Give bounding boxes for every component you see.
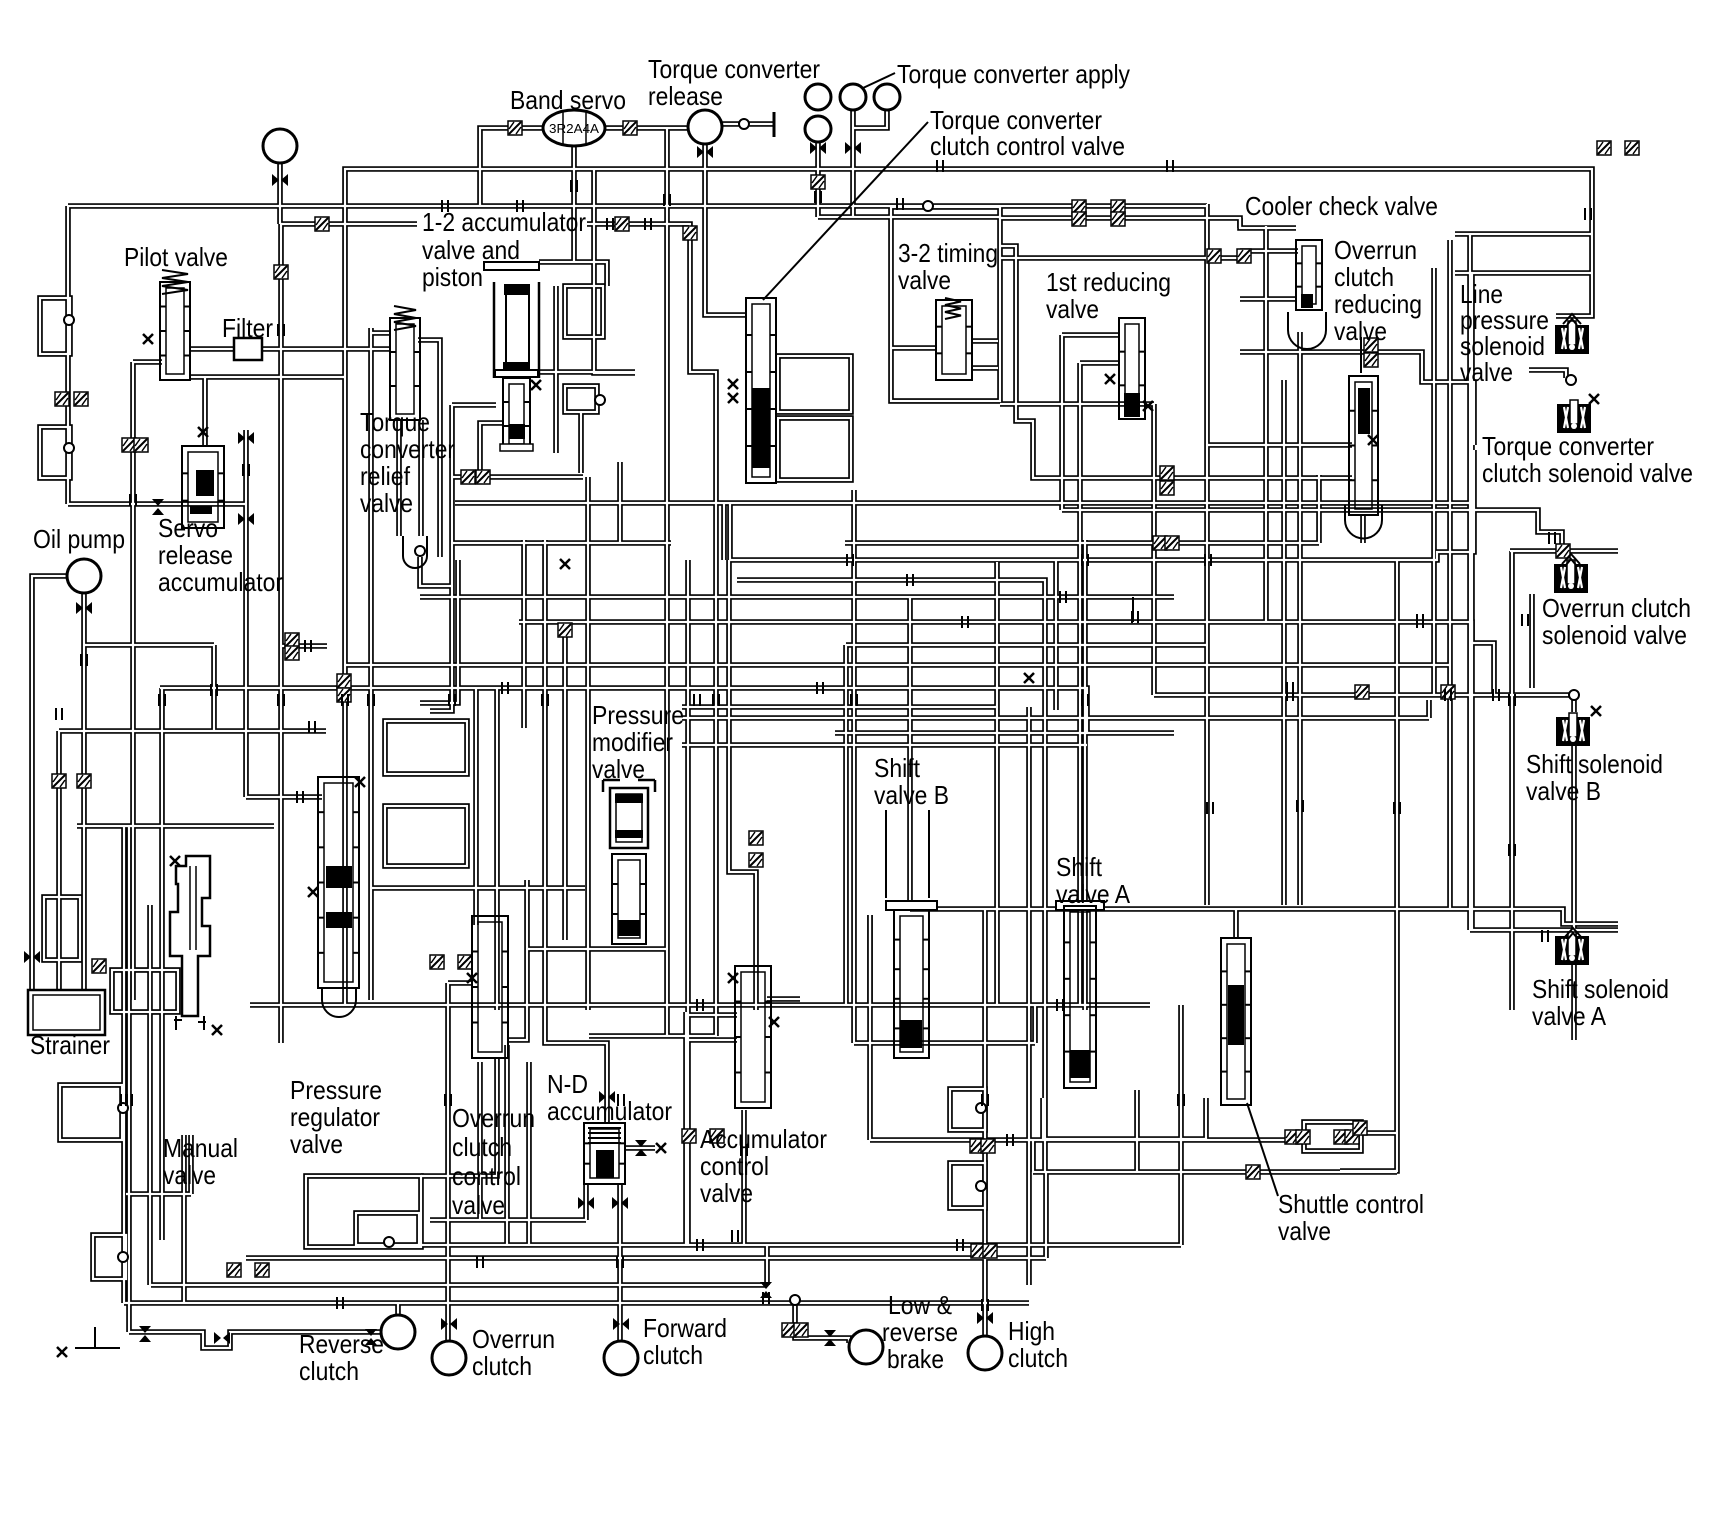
ball check at (69,448): [64, 443, 74, 453]
drain X at (774,1022): [769, 1017, 779, 1027]
wire segment w73: from (1035,1005) to (1035,1043): [1032, 1005, 1038, 1043]
drain X at (203,432): [198, 427, 208, 437]
wire segment w133: from (398,1315) to (398,1303): [395, 1303, 401, 1315]
wire segment w93: from (1000,218) to (1296,228): [1000, 218, 1296, 228]
wire segment w157: from (455,503) to (1474,503): [455, 500, 1474, 506]
wire segment w10: from (503,423) to (480,477): [480, 423, 503, 477]
wire segment w171: from (910,597) to (910,901): [907, 597, 913, 901]
svg-text:Pressure: Pressure: [592, 700, 684, 730]
wire segment w24: from (729,560) to (1474,450): [729, 450, 1474, 560]
wire segment w83: from (1207,204) to (1207,905): [1204, 204, 1210, 905]
wire segment w43: from (59,731) to (59,990): [56, 731, 62, 990]
wire loop l11: [356, 1213, 419, 1245]
orifice at (468,477): [461, 470, 475, 484]
orifice at (59,781): [52, 774, 66, 788]
Torque converter release port: [688, 110, 722, 144]
svg-text:clutch: clutch: [472, 1351, 532, 1381]
shift valve A: [1056, 901, 1104, 910]
wire segment w86: from (1266,226) to (1266,622): [1263, 226, 1269, 622]
orifice at (1079,207): [1072, 200, 1086, 214]
wire segment w27: from (519,622) to (1494,695): [519, 622, 1494, 695]
Oil pump: [67, 559, 101, 593]
svg-text:valve: valve: [592, 754, 645, 784]
wire loop l3: [93, 1235, 126, 1279]
orifice at (234,1270): [227, 1263, 241, 1277]
check valve at (32,957): [24, 951, 40, 963]
wire segment w129: from (124,1303) to (1029,1303): [124, 1300, 1029, 1306]
svg-text:valve: valve: [1460, 357, 1513, 387]
svg-text:Cooler check valve: Cooler check valve: [1245, 191, 1438, 221]
wire segment w18: from (574,146) to (574,262): [571, 146, 577, 262]
orifice at (630,128): [623, 121, 637, 135]
svg-text:piston: piston: [422, 262, 483, 292]
drain X at (565,564): [560, 559, 570, 569]
wire segment w50: from (162,688) to (162,1240): [159, 688, 165, 1240]
ball check at (744,124): [739, 119, 749, 129]
orifice at (322,224): [315, 217, 329, 231]
check valve at (371,1337): [365, 1329, 377, 1345]
Torque converter apply port 1: [805, 84, 831, 110]
orifice at (84,781): [77, 774, 91, 788]
wire segment w110: from (1512,551) to (1512,1010): [1509, 551, 1515, 1010]
wire segment w17: from (667,128) to (667,1036): [664, 128, 670, 1036]
svg-text:Torque converter: Torque converter: [1482, 431, 1654, 461]
svg-text:N-D: N-D: [547, 1069, 588, 1099]
wire segment w174: from (1470,234) to (1470,560): [1467, 234, 1473, 560]
svg-text:modifier: modifier: [592, 727, 673, 757]
junction tick at (1085,560): [1082, 554, 1088, 566]
check valve at (246,519): [238, 513, 254, 525]
svg-text:Filter: Filter: [222, 313, 273, 343]
orifice at (515,128): [508, 121, 522, 135]
orifice at (344,681): [337, 674, 351, 688]
check valve at (620,1203): [612, 1197, 628, 1209]
svg-text:release: release: [648, 81, 723, 111]
svg-text:clutch solenoid valve: clutch solenoid valve: [1482, 458, 1693, 488]
wire segment w154: from (625,1148) to (655,1148): [625, 1145, 655, 1151]
junction tick at (162,700): [159, 694, 165, 706]
drain X at (1148,406): [1143, 401, 1153, 411]
junction tick at (340,1303): [337, 1297, 343, 1309]
junction tick at (1552,538): [1549, 532, 1555, 544]
check valve at (641,1148): [635, 1140, 647, 1156]
wire segment w134: from (448,983) to (448,1341): [445, 983, 451, 1341]
svg-text:reverse: reverse: [882, 1317, 958, 1347]
wire segment w104: from (973,341) to (998,341): [973, 338, 998, 344]
junction tick at (621,1100): [618, 1094, 624, 1106]
svg-text:Shift solenoid: Shift solenoid: [1526, 749, 1663, 779]
wire loop l17: [778, 418, 851, 480]
orifice at (1448,692): [1441, 685, 1455, 699]
Shift solenoid valve A: [1555, 936, 1589, 965]
3-2 timing valve: [945, 298, 961, 319]
wire segment w132: from (795,1300) to (849,1343): [795, 1300, 849, 1343]
wire segment w68: from (545,540) to (607,1123): [545, 540, 607, 1123]
junction tick at (133,500): [130, 494, 136, 506]
wire loop l6: [950, 1089, 985, 1130]
filter: [234, 338, 262, 360]
wire loop l1: [40, 427, 70, 478]
wire segment w164: from (452,543) to (671,543): [452, 540, 671, 546]
orifice at (1167,488): [1160, 481, 1174, 495]
wire segment w95: from (1240,251) to (1298,251): [1240, 248, 1298, 254]
wire segment w91: from (1472,273) to (1472,930): [1469, 273, 1475, 930]
wire segment w101: from (1207,445) to (1352,445): [1207, 442, 1352, 448]
svg-text:valve A: valve A: [1056, 879, 1131, 909]
drain X at (1110,379): [1105, 374, 1115, 384]
svg-text:Overrun clutch: Overrun clutch: [1542, 593, 1691, 623]
wire segment w143: from (126,1194) to (191,1194): [126, 1191, 191, 1197]
wire segment w97: from (1455,234) to (1592,234): [1455, 231, 1592, 237]
wire segment w46: from (246,797) to (322,797): [246, 794, 322, 800]
junction tick at (820,688): [817, 682, 823, 694]
orifice at (1341,1137): [1334, 1130, 1348, 1144]
wire segment w40: from (84,645) to (214,645): [84, 642, 214, 648]
wire segment w119: from (430,1220) to (586,1220): [430, 1217, 586, 1223]
orifice at (1253,1172): [1246, 1165, 1260, 1179]
check valve at (621,1324): [613, 1318, 629, 1330]
orifice at (789,1330): [782, 1323, 796, 1337]
flow arrow at (1573,930): [1564, 928, 1582, 939]
orifice at (344,695): [337, 688, 351, 702]
orifice at (1079,219): [1072, 212, 1086, 226]
junction tick at (1545,936): [1542, 930, 1548, 942]
drain X at (360,782): [355, 777, 365, 787]
wire segment w108: from (1062,510) to (1562,551): [1062, 510, 1562, 551]
orifice at (978,1251): [971, 1244, 985, 1258]
wire segment w173: from (1236,909) to (1236,938): [1233, 909, 1239, 938]
junction tick at (960,1245): [957, 1239, 963, 1251]
svg-text:1st reducing: 1st reducing: [1046, 267, 1171, 297]
wire segment w66: from (497,688) to (497,1010): [494, 688, 500, 1010]
junction tick at (1181,1100): [1178, 1094, 1184, 1106]
wire segment w70: from (588,477) to (588,1010): [585, 477, 591, 1010]
wire segment w42: from (59,731) to (326,731): [59, 728, 326, 734]
orifice at (717,1136): [710, 1129, 724, 1143]
wire segment w137: from (620,1184) to (620,1341): [617, 1184, 623, 1341]
junction tick at (545,700): [542, 694, 548, 706]
svg-text:clutch: clutch: [643, 1340, 703, 1370]
junction tick at (129,1100): [126, 1094, 132, 1106]
wire segment w165: from (205,377) to (205,446): [202, 377, 208, 446]
wire segment w155: from (371,888) to (585,888): [371, 885, 585, 891]
junction tick at (1512,850): [1509, 844, 1515, 856]
wire segment w11: from (452,477) to (583,477): [452, 474, 583, 480]
svg-text:Overrun: Overrun: [1334, 235, 1417, 265]
drain X at (1594,399): [1589, 394, 1599, 404]
wire segment w65: from (476,688) to (476,925): [473, 688, 479, 925]
orifice at (129,445): [122, 438, 136, 452]
ball check at (795,1300): [790, 1295, 800, 1305]
ball check at (123,1257): [118, 1252, 128, 1262]
torque converter relief valve: [394, 306, 416, 330]
junction tick at (1085,700): [1082, 694, 1088, 706]
orifice at (565,630): [558, 623, 572, 637]
wire segment w63: from (190,377) to (345,377): [190, 374, 345, 380]
svg-text:release: release: [158, 540, 233, 570]
wire segment w144: from (870,915) to (870,1140): [867, 915, 873, 1140]
wire segment w148: from (1361,1133) to (1397,1133): [1361, 1130, 1397, 1136]
svg-text:regulator: regulator: [290, 1102, 380, 1132]
junction tick at (281,700): [278, 694, 284, 706]
svg-text:control: control: [452, 1161, 521, 1191]
pressure modifier valve: [603, 780, 655, 792]
junction tick at (1010,1140): [1007, 1134, 1013, 1146]
orifice at (1118,219): [1111, 212, 1125, 226]
junction tick at (1208,560): [1205, 554, 1211, 566]
svg-text:Overrun: Overrun: [472, 1324, 555, 1354]
svg-text:Torque converter apply: Torque converter apply: [897, 59, 1130, 89]
check valve at (818,148): [810, 142, 826, 154]
drain X at (536,385): [531, 380, 541, 390]
junction tick at (505,688): [502, 682, 508, 694]
svg-text:clutch: clutch: [452, 1132, 512, 1162]
check valve at (830,1338): [824, 1330, 836, 1346]
orifice at (141,445): [134, 438, 148, 452]
High clutch port: [968, 1336, 1002, 1370]
junction tick at (505,688): [502, 682, 508, 694]
junction tick at (985,1305): [982, 1299, 988, 1311]
svg-text:valve: valve: [898, 265, 951, 295]
orifice at (756,860): [749, 853, 763, 867]
junction tick at (214,690): [211, 684, 217, 696]
ball check at (1574,695): [1569, 690, 1579, 700]
wire segment w152: from (686,1040) to (737,1040): [686, 1037, 737, 1043]
wire segment w96: from (1240,299) to (1296,299): [1240, 296, 1296, 302]
orifice at (281,272): [274, 265, 288, 279]
svg-text:3-2 timing: 3-2 timing: [898, 238, 998, 268]
wire segment w35: from (846,645) to (1207,645): [846, 642, 1207, 648]
wire segment w114: from (1470,560) to (1470,930): [1467, 560, 1473, 930]
check valve at (222,1338): [214, 1332, 230, 1344]
wire segment w75: from (729,560) to (756,1010): [729, 560, 756, 1010]
wire segment w175: from (1080,909) to (1080,1005): [1077, 909, 1083, 1005]
wire segment w31: from (682,718) to (1429,718): [682, 715, 1429, 721]
wire segment w79: from (1062,335) to (1062,510): [1059, 335, 1065, 510]
junction tick at (1170,166): [1167, 160, 1173, 172]
wire segment w44: from (214,645) to (214,731): [211, 645, 217, 731]
wire segment w126: from (151,1285) to (767,1285): [151, 1282, 767, 1288]
wire segment w88: from (1397,560) to (1340,1171): [1340, 560, 1397, 1171]
drain X at (1029,678): [1024, 673, 1034, 683]
svg-text:clutch: clutch: [299, 1356, 359, 1386]
wire segment w29: from (160,688) to (1087,733): [160, 688, 1087, 733]
orifice at (292,653): [285, 646, 299, 660]
orifice at (292,640): [285, 633, 299, 647]
wire segment w109: from (1510,551) to (1618,551): [1510, 548, 1618, 554]
wire segment w121: from (421,1245) to (1181,1245): [421, 1242, 1181, 1248]
junction tick at (445,206): [442, 200, 448, 212]
svg-text:valve and: valve and: [422, 235, 520, 265]
junction tick at (648,224): [645, 218, 651, 230]
wire segment w118: from (910,901) to (910,909): [907, 901, 913, 909]
junction tick at (246,470): [243, 464, 249, 476]
wire segment w41: from (67,576) to (32,990): [32, 576, 67, 990]
accumulator port: [263, 129, 297, 163]
svg-text:solenoid valve: solenoid valve: [1542, 620, 1687, 650]
wire segment w45: from (246,430) to (246,797): [243, 430, 249, 797]
wire segment w72: from (854,1043) to (1035,1043): [854, 1040, 1035, 1046]
junction tick at (965,622): [962, 616, 968, 628]
svg-text:High: High: [1008, 1316, 1055, 1346]
wire segment w128: from (124,826) to (124,1303): [121, 826, 127, 1303]
wire segment w90: from (1450,240) to (1450,909): [1447, 240, 1453, 909]
svg-text:Shift: Shift: [874, 753, 921, 783]
drain X at (1373,440): [1368, 435, 1378, 445]
junction tick at (520,206): [517, 200, 523, 212]
wire segment w48: from (77,826) to (274,826): [77, 823, 274, 829]
wire segment w3: from (68,206) to (68,504): [65, 206, 71, 504]
wire loop l8: [112, 970, 178, 1012]
wire segment w36: from (846,645) to (846,1005): [843, 645, 849, 1005]
wire segment w136: from (527,880) to (508,1040): [508, 880, 527, 1040]
check valve at (84,608): [76, 602, 92, 614]
wire segment w37: from (682,707) to (997,707): [682, 704, 997, 710]
wire segment w87: from (1363,515) to (1363,543): [1360, 515, 1366, 543]
svg-text:Pressure: Pressure: [290, 1075, 382, 1105]
svg-text:valve: valve: [452, 1190, 505, 1220]
wire segment w167: from (399,420) to (399,536): [396, 420, 402, 536]
orifice at (437,962): [430, 955, 444, 969]
wire loop l4: [385, 721, 467, 774]
wire segment w38: from (682,745) to (1087,745): [682, 742, 1087, 748]
junction tick at (1525,620): [1522, 614, 1528, 626]
check valve at (449,1324): [441, 1318, 457, 1330]
svg-text:clutch: clutch: [1008, 1343, 1068, 1373]
wire segment w15: from (544,128) to (480,206): [480, 128, 544, 206]
orifice at (1244,256): [1237, 249, 1251, 263]
wire segment w0: from (345,665) to (1556,316): [345, 169, 1592, 665]
Overrun clutch port: [432, 1341, 466, 1375]
wire segment w59: from (496,405) to (452,405): [452, 402, 496, 408]
Low & reverse brake port: [849, 1330, 883, 1364]
orifice at (1172,543): [1165, 536, 1179, 550]
wire loop l7: [950, 1163, 985, 1208]
check valve at (145,1334): [139, 1326, 151, 1342]
servo release accumulator: [182, 446, 224, 528]
check valve at (766,1290): [760, 1282, 772, 1298]
junction tick at (910,580): [907, 574, 913, 586]
svg-text:brake: brake: [887, 1344, 944, 1374]
wire segment w62: from (260,349) to (390,349): [260, 346, 390, 352]
drain X at (1596,711): [1591, 706, 1601, 716]
junction tick at (312,727): [309, 721, 315, 733]
wire segment w9: from (539,262) to (607,286): [539, 262, 607, 286]
wire segment w102: from (1000,246) to (1352,478): [1000, 246, 1352, 478]
wire segment w94: from (818,217) to (1000,217): [818, 214, 1000, 220]
svg-text:1-2 accumulator: 1-2 accumulator: [422, 207, 586, 237]
svg-text:Pilot valve: Pilot valve: [124, 242, 228, 272]
ball check at (928,206): [923, 201, 933, 211]
wire segment w51: from (150,905) to (150,1285): [147, 905, 153, 1285]
cooler check valve: [1296, 240, 1322, 310]
junction tick at (281,330): [278, 324, 284, 336]
junction tick at (480,1262): [477, 1256, 483, 1268]
wire segment w100: from (1319,475) to (1319,543): [1316, 475, 1322, 543]
svg-text:valve: valve: [700, 1178, 753, 1208]
junction tick at (900,204): [897, 198, 903, 210]
wire segment w142: from (191,1135) to (191,1194): [188, 1135, 194, 1194]
Torque converter apply port 2: [840, 84, 866, 110]
wire segment w115: from (1470,930) to (1618,930): [1470, 927, 1618, 933]
wire segment w153: from (767,999) to (800,999): [767, 996, 800, 1002]
svg-text:relief: relief: [360, 461, 411, 491]
wire segment w146: from (1043,1098) to (1206,1098): [1043, 1098, 1206, 1139]
svg-text:accumulator: accumulator: [158, 567, 283, 597]
wire segment w16: from (604,128) to (688,128): [604, 125, 688, 131]
svg-text:valve: valve: [290, 1129, 343, 1159]
wire segment w120: from (480,1062) to (480,1220): [477, 1062, 483, 1220]
drain X at (661,1148): [656, 1143, 666, 1153]
wire segment w80: from (1062,335) to (1119,335): [1062, 332, 1119, 338]
wire segment w53: from (345,665) to (345,1005): [342, 665, 348, 1005]
junction tick at (850,560): [847, 554, 853, 566]
wire loop l15: [44, 897, 80, 960]
wire segment w99: from (1240,352) to (1474,445): [1240, 352, 1474, 445]
1st reducing valve: [1119, 318, 1145, 419]
junction tick at (620,1262): [617, 1256, 623, 1268]
wire segment w56: from (418,340) to (440,557): [418, 340, 440, 557]
wire segment w52: from (68,504) to (225,504): [68, 501, 225, 507]
junction tick at (1420,620): [1417, 614, 1423, 626]
wire segment w22: from (853,111) to (853,217): [850, 111, 856, 217]
wire segment w124: from (246,1258) to (1046,1258): [246, 1255, 1046, 1261]
svg-text:accumulator: accumulator: [547, 1096, 672, 1126]
check valve at (280,180): [272, 174, 288, 186]
ball check at (1571,380): [1566, 375, 1576, 385]
junction tick at (940,166): [937, 160, 943, 172]
band servo (3R/2A/4A): [543, 110, 605, 146]
orifice at (690,233): [683, 226, 697, 240]
junction tick at (345,700): [342, 694, 348, 706]
drain X at (217,1030): [212, 1025, 222, 1035]
wire segment w7: from (620,462) to (620,543): [617, 462, 623, 543]
ball check at (123,1108): [118, 1103, 128, 1113]
ball check at (600,400): [595, 395, 605, 405]
svg-text:valve: valve: [1046, 294, 1099, 324]
svg-text:Overrun: Overrun: [452, 1103, 535, 1133]
Shift solenoid valve B: [1556, 717, 1590, 746]
pilot valve: [162, 270, 188, 294]
wire segment w138: from (586,1184) to (586,1220): [583, 1184, 589, 1220]
junction tick at (574,186): [571, 180, 577, 192]
wire segment w170: from (497,1058) to (421,1176): [421, 1058, 497, 1176]
wire segment w19: from (705,145) to (746,315): [705, 145, 746, 315]
wire segment w89: from (1434,268) to (1434,695): [1431, 268, 1437, 695]
wire segment w168: from (421,420) to (421,536): [418, 420, 424, 536]
orifice at (1352,1137): [1345, 1130, 1359, 1144]
orifice at (483,477): [476, 470, 490, 484]
wire segment w76: from (1029,707) to (1029,1285): [1026, 707, 1032, 1285]
orifice at (689,1136): [682, 1129, 696, 1143]
svg-text:Forward: Forward: [643, 1313, 727, 1343]
wire segment w78: from (1085,540) to (1085,1010): [1082, 540, 1088, 1010]
orifice at (801,1330): [794, 1323, 808, 1337]
check valve at (705,152): [697, 146, 713, 158]
svg-text:converter: converter: [360, 434, 455, 464]
overrun clutch reducing valve: [1349, 376, 1378, 515]
wire segment w151: from (686,1015) to (737,1015): [686, 1012, 737, 1018]
svg-text:valve A: valve A: [1532, 1001, 1607, 1031]
junction tick at (818,197): [815, 191, 821, 203]
wire segment w150: from (686,1012) to (686,1245): [683, 1012, 689, 1245]
ball check at (69,320): [64, 315, 74, 325]
wire segment w149: from (1033,1139) to (1033,1172): [1030, 1139, 1036, 1172]
wire segment w112: from (1574,700) to (1574,712): [1571, 700, 1577, 712]
orifice at (1632,148): [1625, 141, 1639, 155]
pressure regulator valve: [318, 777, 359, 988]
torque converter release plug: [773, 112, 776, 137]
